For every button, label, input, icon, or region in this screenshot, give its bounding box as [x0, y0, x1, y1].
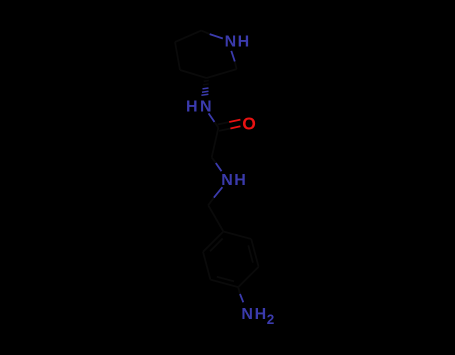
piperidine ring bond C5-C6 (wire) — [175, 31, 201, 42]
bond CH2-phenyl (wire) — [208, 205, 223, 231]
benzene ring bond meta1-para (wire) — [238, 267, 258, 287]
benzene ring bond para-meta2 (wire) — [210, 280, 238, 288]
benzene ring bond meta2-ortho2 (wire) — [203, 252, 210, 280]
bond CH2-NH (wire) — [212, 157, 216, 163]
piperidine ring bond C6-N1 (wire) — [201, 31, 210, 34]
svg-text:H: H — [186, 99, 198, 116]
benzene inner double bond line — [217, 277, 234, 282]
piperidine ring bond C4-C5 (wire) — [175, 42, 180, 70]
bond phenyl-NH2 (wire) — [238, 287, 240, 294]
piperidine ring bond N1-C2 (wire) — [231, 51, 235, 62]
svg-text:N: N — [200, 99, 212, 116]
benzene ring bond ipso-ortho1 (wire) — [223, 232, 251, 240]
bond NH-CH2 benzylic (wire) — [214, 187, 223, 198]
piperidine ring bond C3-C4 (wire) — [180, 70, 207, 78]
carbonyl double bond C=O — [218, 122, 230, 125]
svg-text:H: H — [234, 172, 246, 189]
benzene inner double bond line — [210, 239, 223, 252]
piperidine ring bond C2-C3 (wire) — [207, 69, 237, 78]
svg-text:N: N — [221, 172, 233, 189]
svg-text:N: N — [225, 34, 237, 51]
svg-text:N: N — [241, 306, 253, 323]
svg-text:2: 2 — [267, 312, 275, 327]
benzene ring bond ortho1-meta1 (wire) — [251, 239, 258, 267]
svg-text:H: H — [255, 306, 267, 323]
bond C(=O)-CH2 (wire) — [212, 128, 219, 158]
svg-text:O: O — [242, 113, 256, 133]
benzene ring bond ortho2-ipso (wire) — [203, 232, 223, 252]
hashed wedge bond C3-N (stereo) — [204, 80, 209, 83]
svg-text:H: H — [238, 34, 250, 51]
amide bond N-C(=O) (wire) — [209, 113, 215, 122]
benzene inner double bond line — [248, 245, 253, 262]
